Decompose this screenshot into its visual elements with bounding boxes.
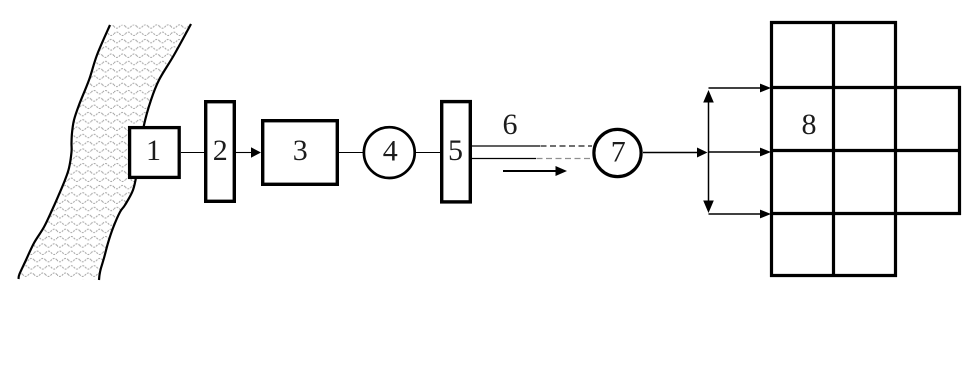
svg-text:5: 5 [448,134,463,167]
svg-text:6: 6 [503,108,518,141]
svg-text:7: 7 [611,136,626,169]
svg-text:4: 4 [383,135,398,168]
svg-text:8: 8 [802,108,817,141]
svg-text:2: 2 [213,134,228,167]
svg-text:3: 3 [293,134,308,167]
svg-text:1: 1 [146,134,161,167]
